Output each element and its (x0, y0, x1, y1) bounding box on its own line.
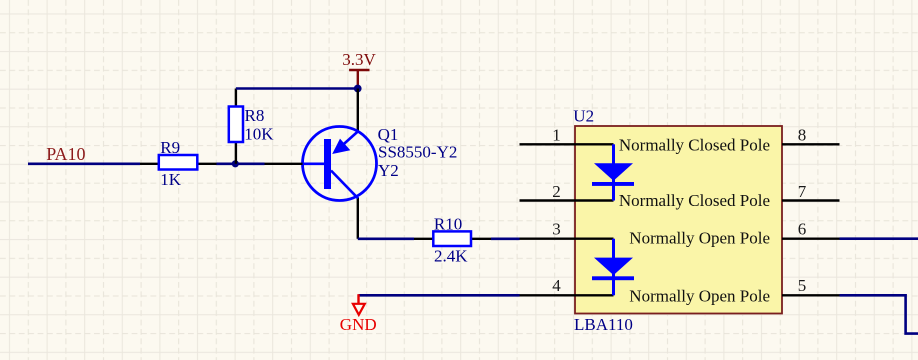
svg-text:4: 4 (552, 276, 561, 295)
svg-text:Normally Closed Pole: Normally Closed Pole (619, 136, 770, 155)
svg-text:Q1: Q1 (378, 125, 399, 144)
U2 pin 6 (782, 237, 840, 239)
IC U2 body LBA110 (575, 126, 782, 314)
wire GND to U2 pin 4 (359, 294, 520, 297)
wire PA10 to R9 (28, 163, 140, 166)
svg-text:Normally Open Pole: Normally Open Pole (629, 229, 770, 248)
svg-text:8: 8 (798, 126, 807, 145)
svg-text:SS8550-Y2: SS8550-Y2 (378, 143, 457, 162)
svg-text:Normally Closed Pole: Normally Closed Pole (619, 191, 770, 210)
wire U2 pin 5 to bottom right edge (840, 295, 918, 333)
svg-text:1: 1 (552, 126, 561, 145)
svg-text:GND: GND (340, 315, 377, 334)
svg-text:R8: R8 (245, 106, 265, 125)
U2 pin 5 (782, 294, 840, 296)
wire U2 pin 6 to right edge (840, 237, 918, 240)
svg-text:R9: R9 (160, 138, 180, 157)
svg-text:2.4K: 2.4K (434, 246, 468, 265)
Q1 collector pin (357, 198, 359, 239)
svg-text:U2: U2 (573, 106, 594, 125)
wire R9 to node A to Q1 base (217, 163, 265, 166)
U2 pin 2 (520, 199, 614, 201)
svg-text:LBA110: LBA110 (574, 315, 633, 334)
junction node B (354, 85, 362, 93)
svg-text:Normally Open Pole: Normally Open Pole (629, 286, 770, 305)
U2 pin 7 (782, 199, 840, 201)
ground GND (340, 294, 377, 334)
resistor R9 (140, 155, 217, 170)
svg-text:3: 3 (552, 220, 561, 239)
U2 pin 4 (520, 294, 614, 296)
power port 3.3V (342, 50, 376, 89)
svg-text:7: 7 (798, 182, 807, 201)
svg-text:5: 5 (798, 276, 807, 295)
LED D2 inside U2 (592, 239, 634, 296)
svg-text:1K: 1K (160, 170, 182, 189)
U2 pin 8 (782, 143, 840, 145)
wire R8 to 3.3V rail (236, 87, 358, 90)
resistor R10 (414, 231, 491, 246)
transistor Q1 (303, 127, 377, 201)
U2 pin 1 (520, 143, 614, 145)
junction node A (232, 160, 239, 167)
wire R10 to U2 pin 3 (491, 238, 520, 241)
Q1 base pin (265, 163, 303, 165)
U2 pin 3 (520, 237, 614, 239)
wire Q1 collector to R10 (358, 238, 414, 241)
svg-text:R10: R10 (434, 215, 462, 234)
Q1 emitter pin (357, 89, 359, 134)
svg-text:2: 2 (552, 182, 561, 201)
svg-text:10K: 10K (244, 124, 274, 143)
svg-text:Y2: Y2 (378, 161, 399, 180)
resistor R8 (229, 89, 243, 164)
svg-text:PA10: PA10 (46, 144, 85, 164)
LED D1 inside U2 (592, 144, 634, 200)
svg-text:3.3V: 3.3V (342, 50, 376, 69)
svg-text:6: 6 (798, 220, 807, 239)
